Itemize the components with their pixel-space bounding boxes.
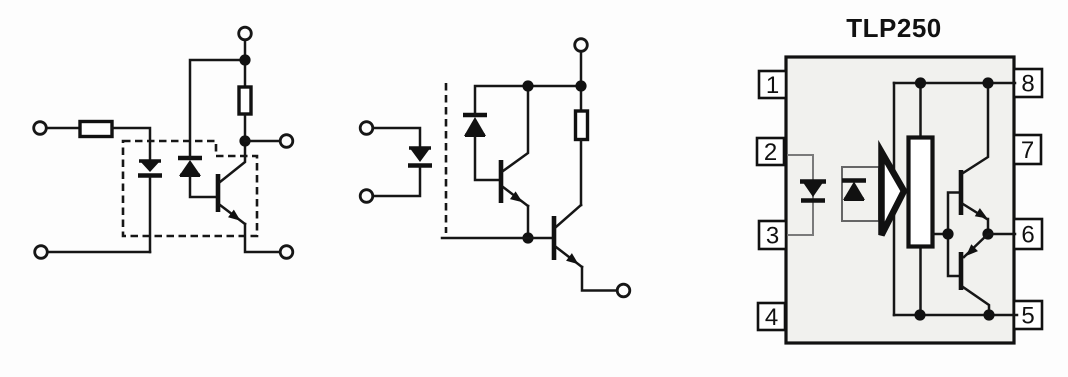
wire bbox=[190, 177, 217, 197]
pin 6 bbox=[1014, 219, 1042, 249]
terminal input A bbox=[34, 122, 47, 135]
LED D1 bbox=[138, 160, 162, 176]
IC body bbox=[786, 57, 1014, 343]
node junction bbox=[575, 80, 586, 91]
transistor Q4 bbox=[961, 84, 990, 223]
wire bbox=[919, 247, 922, 315]
wire bbox=[582, 267, 617, 291]
node junction bbox=[239, 135, 250, 146]
svg-text:TLP250: TLP250 bbox=[846, 13, 942, 43]
transistor Q3 bbox=[554, 205, 582, 268]
terminal input B bbox=[35, 246, 48, 259]
terminal cathode bbox=[360, 190, 373, 203]
node junction bbox=[914, 309, 925, 320]
wire input loop pin2-pin3 bbox=[787, 155, 813, 235]
terminal anode bbox=[360, 122, 373, 135]
wire bbox=[987, 219, 990, 234]
pin 7 bbox=[1014, 135, 1041, 164]
wire GND rail bbox=[894, 314, 1017, 317]
LED D2 bbox=[408, 147, 432, 166]
terminal Vcc bbox=[575, 39, 588, 52]
photodiode PD2 bbox=[463, 115, 487, 136]
wire bbox=[245, 224, 280, 252]
transistor Q5 bbox=[961, 234, 989, 315]
node junction bbox=[983, 309, 994, 320]
terminal Vcc bbox=[239, 27, 252, 40]
pin 4 bbox=[758, 303, 785, 331]
resistor R1 bbox=[80, 122, 112, 137]
dashed barrier line bbox=[445, 83, 448, 233]
wire bbox=[527, 206, 530, 238]
svg-text:2: 2 bbox=[764, 139, 777, 166]
terminal emitter bbox=[280, 246, 293, 259]
wire bbox=[580, 140, 583, 205]
node junction bbox=[982, 77, 993, 88]
pin 8 bbox=[1014, 69, 1042, 98]
node junction bbox=[915, 77, 926, 88]
terminal emitter out bbox=[617, 284, 630, 297]
node junction bbox=[982, 228, 993, 239]
wire bbox=[580, 52, 583, 110]
wire Vcc rail bbox=[894, 82, 1015, 85]
pin 3 bbox=[759, 221, 786, 250]
resistor R2 bbox=[239, 87, 251, 114]
transistor Q1 bbox=[218, 141, 245, 225]
wire bbox=[48, 251, 150, 254]
wire bbox=[373, 128, 420, 147]
amplifier U1 bbox=[882, 152, 905, 235]
wire bbox=[893, 83, 896, 172]
wire output to pin 6 bbox=[988, 233, 1015, 236]
wire bbox=[475, 86, 581, 115]
wire bbox=[149, 177, 152, 252]
wire bbox=[190, 60, 245, 158]
wire bbox=[373, 166, 420, 196]
wire bbox=[244, 40, 247, 86]
wire bbox=[47, 127, 80, 130]
svg-text:8: 8 bbox=[1021, 71, 1034, 98]
pin 2 bbox=[757, 138, 784, 166]
svg-text:1: 1 bbox=[766, 72, 779, 99]
svg-text:5: 5 bbox=[1021, 303, 1034, 330]
photodetector box bbox=[842, 167, 879, 221]
wire bbox=[893, 213, 896, 315]
svg-text:4: 4 bbox=[765, 304, 778, 331]
wire base bracket bbox=[948, 193, 959, 277]
LED D3 bbox=[800, 181, 826, 201]
node junction bbox=[522, 80, 533, 91]
node junction bbox=[942, 228, 953, 239]
wire base link bbox=[933, 233, 948, 236]
resistor R3 bbox=[576, 111, 588, 140]
wire bbox=[245, 140, 280, 143]
svg-text:3: 3 bbox=[766, 223, 779, 250]
svg-text:7: 7 bbox=[1021, 137, 1034, 164]
dashed package outline bbox=[123, 141, 257, 236]
transistor Q2 bbox=[501, 87, 528, 206]
node junction bbox=[239, 54, 250, 65]
wire base rail bbox=[442, 237, 552, 240]
wire bbox=[475, 137, 500, 180]
wire bbox=[919, 83, 922, 137]
photodiode PD3 bbox=[842, 181, 866, 201]
terminal collector bbox=[280, 135, 293, 148]
wire bbox=[112, 128, 150, 160]
pin 1 bbox=[759, 71, 786, 99]
photodiode PD1 bbox=[178, 158, 202, 176]
driver block bbox=[909, 138, 933, 247]
svg-text:6: 6 bbox=[1021, 222, 1034, 249]
pin 5 bbox=[1014, 301, 1042, 330]
node junction bbox=[522, 232, 533, 243]
wire bbox=[244, 115, 247, 142]
